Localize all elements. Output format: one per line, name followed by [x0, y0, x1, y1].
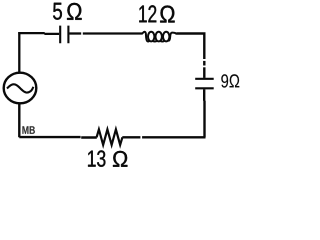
capacitor C2 (9 ohm) plates: [195, 79, 214, 89]
wire top-left run: [18, 33, 59, 73]
wire dash above C2: [203, 61, 205, 66]
wire top toward inductor: [83, 32, 142, 34]
wire top-right run: [176, 34, 204, 60]
inductor loop 2: [156, 32, 162, 42]
wire above C2 top plate: [203, 67, 205, 78]
wire right-bottom run: [142, 89, 205, 137]
inductor loop 3: [163, 32, 169, 42]
AC source V1 circle: [4, 73, 37, 104]
label 5: [53, 3, 62, 20]
MB watermark: [22, 126, 35, 134]
wire bottom-left run: [19, 103, 97, 137]
inductor exit hook: [168, 33, 177, 41]
label 12-ohm omega: [160, 6, 174, 23]
AC source sine wave: [7, 84, 33, 92]
label 9-ohm: [221, 74, 239, 87]
wire bottom right of resistor: [122, 136, 140, 138]
label 5-ohm omega: [67, 3, 82, 20]
inductor loop 2-3 bottom link: [160, 40, 164, 43]
inductor L1 (12 ohm) entry bump: [142, 32, 149, 42]
label 13-ohm omega: [113, 151, 127, 167]
wire top middle segment: [69, 32, 81, 34]
resistor R1 (13 ohm) zigzag: [97, 129, 123, 145]
label 13: [88, 150, 105, 166]
inductor loop 1: [148, 32, 154, 42]
label 12: [139, 5, 156, 22]
capacitor C1 (5 ohm) plates: [60, 26, 68, 44]
inductor loop 1-2 bottom link: [153, 40, 157, 43]
